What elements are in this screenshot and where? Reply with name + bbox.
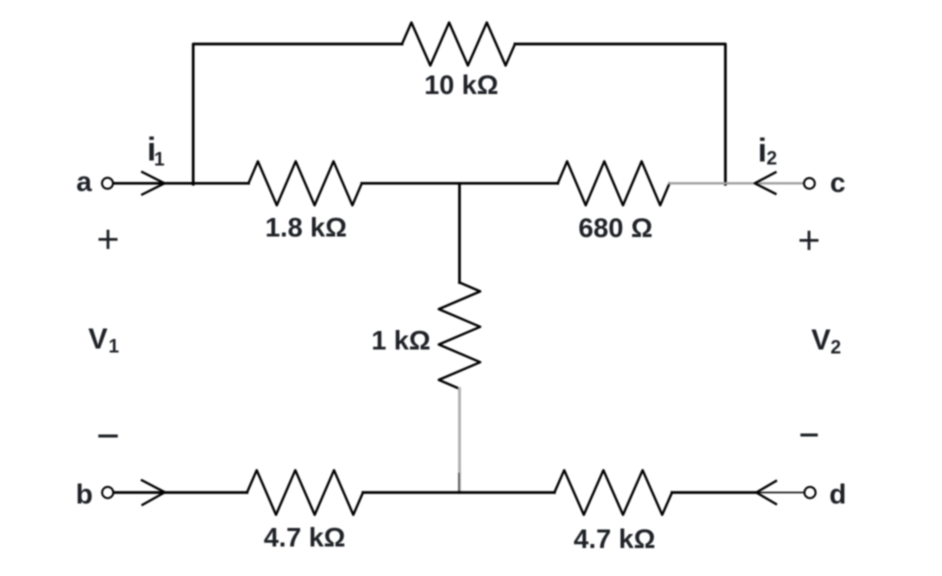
current arrow at b (142, 480, 165, 505)
wire R5 to arrow at d (672, 491, 756, 494)
resistor R4 4.7 kOhm zigzag (247, 470, 363, 515)
minus sign left (98, 435, 118, 438)
resistor R3 1 kOhm vertical zigzag (439, 283, 480, 389)
wire R2 to terminal c (gray) (670, 182, 805, 184)
wire R4 to R5 with bottom node (363, 491, 554, 494)
terminal b (102, 487, 113, 498)
svg-text:4.7 kΩ: 4.7 kΩ (264, 523, 346, 553)
minus sign right (800, 434, 817, 437)
terminal c (804, 178, 815, 189)
wire terminal b to R4 (113, 491, 247, 494)
svg-text:2: 2 (767, 149, 778, 170)
svg-text:1: 1 (109, 337, 120, 358)
svg-text:c: c (830, 167, 846, 198)
resistor R2 680 Ohm zigzag (558, 161, 670, 205)
svg-text:4.7 kΩ: 4.7 kΩ (574, 524, 656, 554)
svg-text:10 kΩ: 10 kΩ (424, 70, 498, 100)
svg-text:680 Ω: 680 Ω (578, 213, 652, 243)
terminal a (102, 178, 113, 189)
wire dark thin lower part of R3 lead (458, 474, 460, 493)
wire R3 down to bottom node (gray) (458, 389, 461, 493)
wire right bridge arm (515, 44, 725, 184)
svg-text:1: 1 (154, 150, 165, 171)
wire thin arrow to terminal d (756, 492, 804, 494)
wire R1 to R2 with center node (362, 182, 558, 185)
current arrow i1 (142, 172, 164, 195)
svg-text:b: b (76, 478, 93, 509)
svg-text:a: a (76, 166, 92, 197)
wire left bridge arm (193, 44, 402, 184)
svg-text:1 kΩ: 1 kΩ (371, 325, 430, 355)
svg-text:1.8 kΩ: 1.8 kΩ (265, 212, 347, 242)
terminal d (804, 487, 815, 498)
current arrow at d (756, 481, 776, 504)
svg-text:V: V (811, 325, 831, 357)
wire terminal a to R1 (113, 182, 249, 185)
wire center node down to R3 (458, 183, 461, 282)
svg-text:V: V (88, 324, 108, 356)
resistor 10 kOhm zigzag (402, 23, 515, 66)
plus sign right (800, 231, 819, 250)
svg-text:2: 2 (831, 338, 842, 359)
plus sign left (99, 230, 118, 249)
resistor R5 4.7 kOhm zigzag (554, 470, 672, 515)
svg-text:d: d (829, 479, 846, 510)
current arrow i2 (755, 172, 776, 194)
resistor R1 1.8 kOhm zigzag (249, 161, 362, 205)
